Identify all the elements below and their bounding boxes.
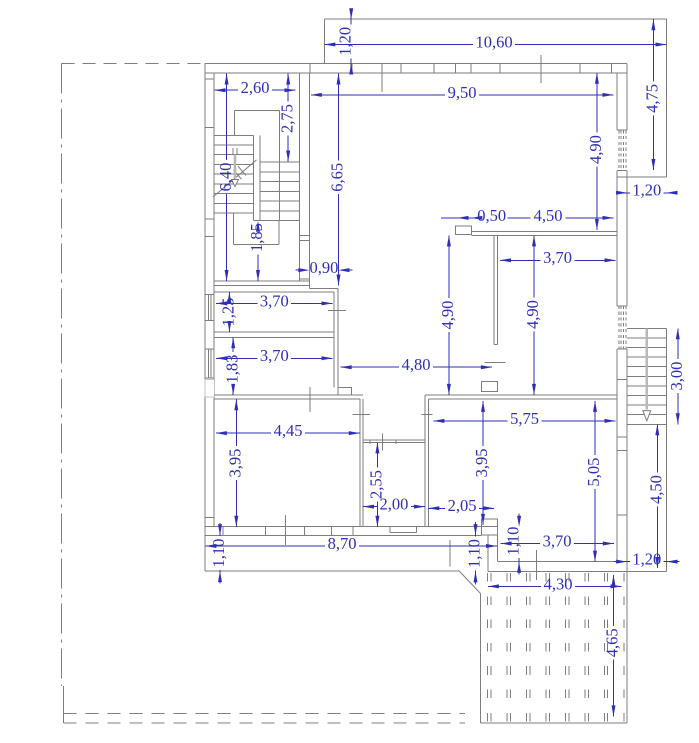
left wall window W2 sill lines bbox=[207, 349, 209, 378]
dimension 4,45 bottom left room bbox=[216, 432, 271, 434]
property boundary left dash-dot line bbox=[60, 63, 62, 686]
property boundary bottom dashed line upper bbox=[64, 713, 465, 715]
dimension 8,70 bottom bbox=[205, 545, 325, 547]
left wall outer face lower bbox=[204, 397, 206, 571]
top wall axis tick a bbox=[381, 73, 383, 92]
right wall window RW1 dashed lines bbox=[618, 130, 620, 170]
exterior stair treads bbox=[627, 327, 666, 329]
center pillar A bbox=[481, 382, 497, 392]
interior wall bottom face right bbox=[428, 398, 617, 400]
stair break slash b bbox=[238, 166, 246, 175]
svg-text:4,75: 4,75 bbox=[643, 84, 662, 113]
small room left wall inner face bbox=[362, 399, 364, 527]
small room left wall axis tick bbox=[353, 414, 370, 416]
dimension 4,80 hall width bbox=[341, 366, 399, 368]
dimension 2,05 door zone width bbox=[428, 507, 445, 509]
dimension 3,95 bottom left room bbox=[235, 399, 237, 446]
stair walking line ticks bbox=[232, 148, 234, 155]
step wall left face bbox=[487, 535, 489, 571]
svg-text:5,75: 5,75 bbox=[510, 409, 539, 428]
top wall axis tick b bbox=[540, 55, 542, 83]
left wall outer face upper bbox=[204, 64, 206, 380]
small room right wall inner face bbox=[424, 395, 426, 527]
left wall inner face lower bbox=[213, 397, 215, 527]
small room left wall outer face bbox=[359, 399, 361, 527]
dimension 5,05 right room height bbox=[594, 401, 596, 455]
dimension 4,50 right strip bbox=[656, 424, 658, 472]
right wall window RW1 caps bbox=[617, 129, 627, 131]
roof overhang outline left bbox=[323, 19, 325, 63]
top wall inner face bbox=[205, 72, 627, 74]
stairwell bottom wall bottom face bbox=[214, 285, 309, 287]
dimension 10,60 top bbox=[324, 44, 473, 46]
stair break slash a bbox=[234, 170, 242, 179]
bottom-right wall axis tick bbox=[536, 550, 538, 580]
svg-text:3,70: 3,70 bbox=[260, 346, 289, 365]
terrace left edge bbox=[480, 594, 482, 723]
dimension 3,00 exterior stair bbox=[677, 328, 679, 359]
svg-text:0,50: 0,50 bbox=[477, 206, 506, 225]
left rooms right wall outer face bbox=[337, 289, 339, 388]
hall wall stub bbox=[309, 288, 338, 290]
stair left flight treads bbox=[214, 134, 254, 136]
bottom-right wall outer face bbox=[488, 570, 667, 572]
bottom wall masonry joints bbox=[222, 527, 224, 536]
right wall window RW2 caps bbox=[617, 305, 627, 307]
dimension 2,60 stairwell width bbox=[215, 89, 239, 91]
svg-text:1,10: 1,10 bbox=[209, 539, 228, 568]
dimension 0,90 passage bbox=[295, 269, 307, 271]
stair central stringer left bbox=[253, 135, 255, 220]
svg-text:4,65: 4,65 bbox=[603, 628, 622, 657]
svg-text:4,50: 4,50 bbox=[534, 206, 563, 225]
dimension 4,75 right eave bbox=[652, 19, 654, 81]
dimension 9,50 top interior bbox=[311, 94, 445, 96]
svg-text:4,50: 4,50 bbox=[647, 475, 666, 504]
porch strip edge bbox=[205, 570, 459, 572]
dimension 1,85 stair exit bbox=[257, 254, 259, 281]
room wall thin line bbox=[214, 291, 334, 293]
left wall inner face upper bbox=[213, 73, 215, 380]
bottom step pillar bbox=[481, 519, 497, 535]
dimension 1,25 room height bbox=[228, 292, 230, 295]
left wall window W1 caps bbox=[205, 294, 214, 296]
dimension 1,10 porch right bbox=[475, 522, 477, 536]
property boundary left corner solid bbox=[63, 686, 65, 723]
roof overhang outline bottom bbox=[627, 176, 666, 178]
terrace right edge bbox=[626, 571, 628, 722]
small room top wall upper line bbox=[363, 439, 425, 441]
svg-text:4,90: 4,90 bbox=[438, 301, 457, 330]
dimension 0,50 and 4,50 top right bbox=[441, 217, 476, 219]
stairwell bottom wall top face bbox=[214, 280, 309, 282]
bottom wall inner face bbox=[205, 526, 482, 528]
svg-text:2,60: 2,60 bbox=[241, 78, 270, 97]
left wall masonry joints bbox=[205, 78, 214, 80]
interior wall bottom face left bbox=[214, 398, 360, 400]
small room door jamb ticks bbox=[369, 439, 371, 444]
interior wall top face left bbox=[214, 394, 363, 396]
dimension 3,95 door zone bbox=[482, 401, 484, 446]
svg-text:3,95: 3,95 bbox=[472, 448, 491, 477]
svg-text:1,85: 1,85 bbox=[247, 223, 266, 252]
left rooms right wall inner face bbox=[333, 292, 335, 388]
stair void right edge bbox=[279, 110, 281, 220]
dimension 1,10 porch left bbox=[219, 523, 221, 536]
svg-text:3,70: 3,70 bbox=[260, 291, 289, 310]
stair entry landing right edge bbox=[278, 221, 280, 245]
dimension 1,20 right lower bbox=[614, 561, 630, 563]
dimension 1,20 top eave bbox=[350, 12, 352, 24]
roof overhang outline top bbox=[324, 18, 666, 20]
exterior stair walking line bbox=[645, 328, 648, 409]
small room right wall axis tick bbox=[421, 414, 432, 416]
top wall masonry joints bbox=[309, 64, 311, 73]
center partition end cap bbox=[494, 344, 497, 346]
left wall door opening jambs bbox=[205, 379, 215, 397]
svg-text:6,40: 6,40 bbox=[216, 163, 235, 192]
stair entry landing left edge bbox=[233, 213, 235, 244]
svg-text:4,90: 4,90 bbox=[523, 300, 542, 329]
dimension 4,30 terrace width bbox=[488, 585, 541, 587]
svg-text:9,50: 9,50 bbox=[448, 83, 477, 102]
dimension 6,65 hall height bbox=[338, 74, 340, 161]
upper thin wall bottom face bbox=[471, 234, 617, 236]
svg-text:4,90: 4,90 bbox=[586, 135, 605, 164]
svg-text:1,20: 1,20 bbox=[632, 181, 661, 200]
exterior stair direction arrow bbox=[643, 411, 651, 421]
exterior stair right edge bbox=[666, 328, 668, 571]
small room right wall outer face bbox=[427, 399, 429, 527]
bottom wall axis tick bbox=[285, 515, 287, 545]
interior wall top face right bbox=[425, 394, 617, 396]
dimension 1,20 right upper bbox=[616, 192, 630, 194]
left wall window W2 caps bbox=[205, 348, 214, 350]
right wall masonry joints bbox=[617, 176, 627, 178]
dimension 4,65 terrace height bbox=[613, 575, 615, 626]
svg-text:4,30: 4,30 bbox=[544, 574, 573, 593]
left rooms right wall axis tick bbox=[328, 309, 346, 311]
roof overhang outline right bbox=[666, 19, 668, 177]
center partition axis tick bbox=[485, 361, 506, 363]
stair bottom cap bbox=[254, 220, 300, 222]
center partition left face bbox=[493, 235, 495, 344]
interior wall axis tick bbox=[309, 387, 311, 412]
dimension 5,75 bottom right room bbox=[433, 420, 507, 422]
dimension 1,10 wall step bbox=[518, 514, 520, 524]
upper wall pillar bbox=[456, 226, 472, 234]
property boundary top dashed line bbox=[61, 62, 204, 64]
svg-text:3,95: 3,95 bbox=[226, 449, 245, 478]
svg-text:3,00: 3,00 bbox=[667, 362, 686, 391]
small room top wall lower line bbox=[363, 441, 425, 443]
porch axis tick bbox=[449, 540, 451, 567]
dimension 4,90 hall column bbox=[448, 235, 450, 298]
left wall window W1 sill lines bbox=[207, 295, 209, 321]
right wall inner face bbox=[616, 73, 618, 130]
svg-text:3,70: 3,70 bbox=[543, 248, 572, 267]
svg-text:8,70: 8,70 bbox=[328, 534, 357, 553]
stair right flight treads bbox=[260, 161, 299, 163]
stair void top edge bbox=[234, 109, 279, 111]
top wall outer face bbox=[205, 63, 627, 65]
svg-text:2,00: 2,00 bbox=[380, 495, 409, 514]
svg-text:2,75: 2,75 bbox=[277, 104, 296, 133]
stairwell right wall inner face bbox=[298, 73, 300, 281]
dimension 2,55 small room height bbox=[376, 442, 378, 467]
svg-text:10,60: 10,60 bbox=[475, 32, 512, 51]
svg-text:1,25: 1,25 bbox=[219, 298, 238, 327]
stairwell right wall outer face bbox=[308, 73, 310, 289]
stair entry landing bottom edge bbox=[234, 243, 279, 245]
bottom-right wall inner face bbox=[498, 561, 627, 563]
svg-text:4,80: 4,80 bbox=[402, 355, 431, 374]
svg-text:6,65: 6,65 bbox=[328, 163, 347, 192]
dimension 1,83 room height bbox=[232, 337, 234, 352]
bottom wall vent recess bbox=[389, 527, 391, 533]
bottom wall outer face bbox=[205, 534, 482, 536]
stair walking line bbox=[234, 155, 237, 179]
svg-text:1,83: 1,83 bbox=[222, 355, 241, 384]
stair central stringer right bbox=[259, 135, 261, 220]
svg-text:1,10: 1,10 bbox=[465, 539, 484, 568]
stair void left edge bbox=[233, 110, 235, 135]
svg-text:3,70: 3,70 bbox=[543, 531, 572, 550]
porch strip diagonal bbox=[459, 571, 480, 593]
svg-text:1,20: 1,20 bbox=[335, 27, 354, 56]
property boundary bottom dashed line lower bbox=[64, 722, 465, 724]
dimension 3,70 room b width bbox=[216, 357, 257, 359]
dimension 4,90 right room bbox=[533, 235, 535, 297]
svg-text:0,90: 0,90 bbox=[309, 258, 338, 277]
dimension 4,90 top right room bbox=[596, 73, 598, 133]
right wall outer face bbox=[626, 64, 628, 131]
dimension 3,70 bottom porch bbox=[501, 543, 540, 545]
svg-text:4,45: 4,45 bbox=[274, 421, 303, 440]
interior wall pillar bbox=[338, 388, 351, 395]
center partition right face bbox=[496, 235, 498, 344]
svg-text:1,10: 1,10 bbox=[503, 527, 522, 556]
terrace bottom edge bbox=[481, 722, 628, 724]
upper thin wall top face bbox=[471, 231, 617, 233]
stair break line bbox=[213, 160, 257, 197]
dimension 3,70 right room width bbox=[500, 259, 541, 261]
stair walking line arrow bbox=[232, 180, 239, 187]
right wall window RW2 dashed lines bbox=[618, 306, 620, 349]
dimension 2,00 small room width bbox=[363, 506, 377, 508]
svg-text:5,05: 5,05 bbox=[584, 458, 603, 487]
dimension 2,75 landing depth bbox=[287, 74, 289, 102]
room divider wall top face bbox=[214, 331, 334, 333]
dimension 6,40 stairwell height bbox=[226, 74, 228, 161]
terrace hatch pattern bbox=[487, 573, 489, 582]
svg-text:2,05: 2,05 bbox=[448, 496, 477, 515]
dimension 3,70 room a width bbox=[216, 302, 257, 304]
small room top wall axis tick bbox=[382, 433, 384, 450]
step wall right face bbox=[497, 535, 499, 562]
stairwell right wall joints bbox=[299, 235, 309, 237]
room divider wall bottom face bbox=[214, 336, 334, 338]
